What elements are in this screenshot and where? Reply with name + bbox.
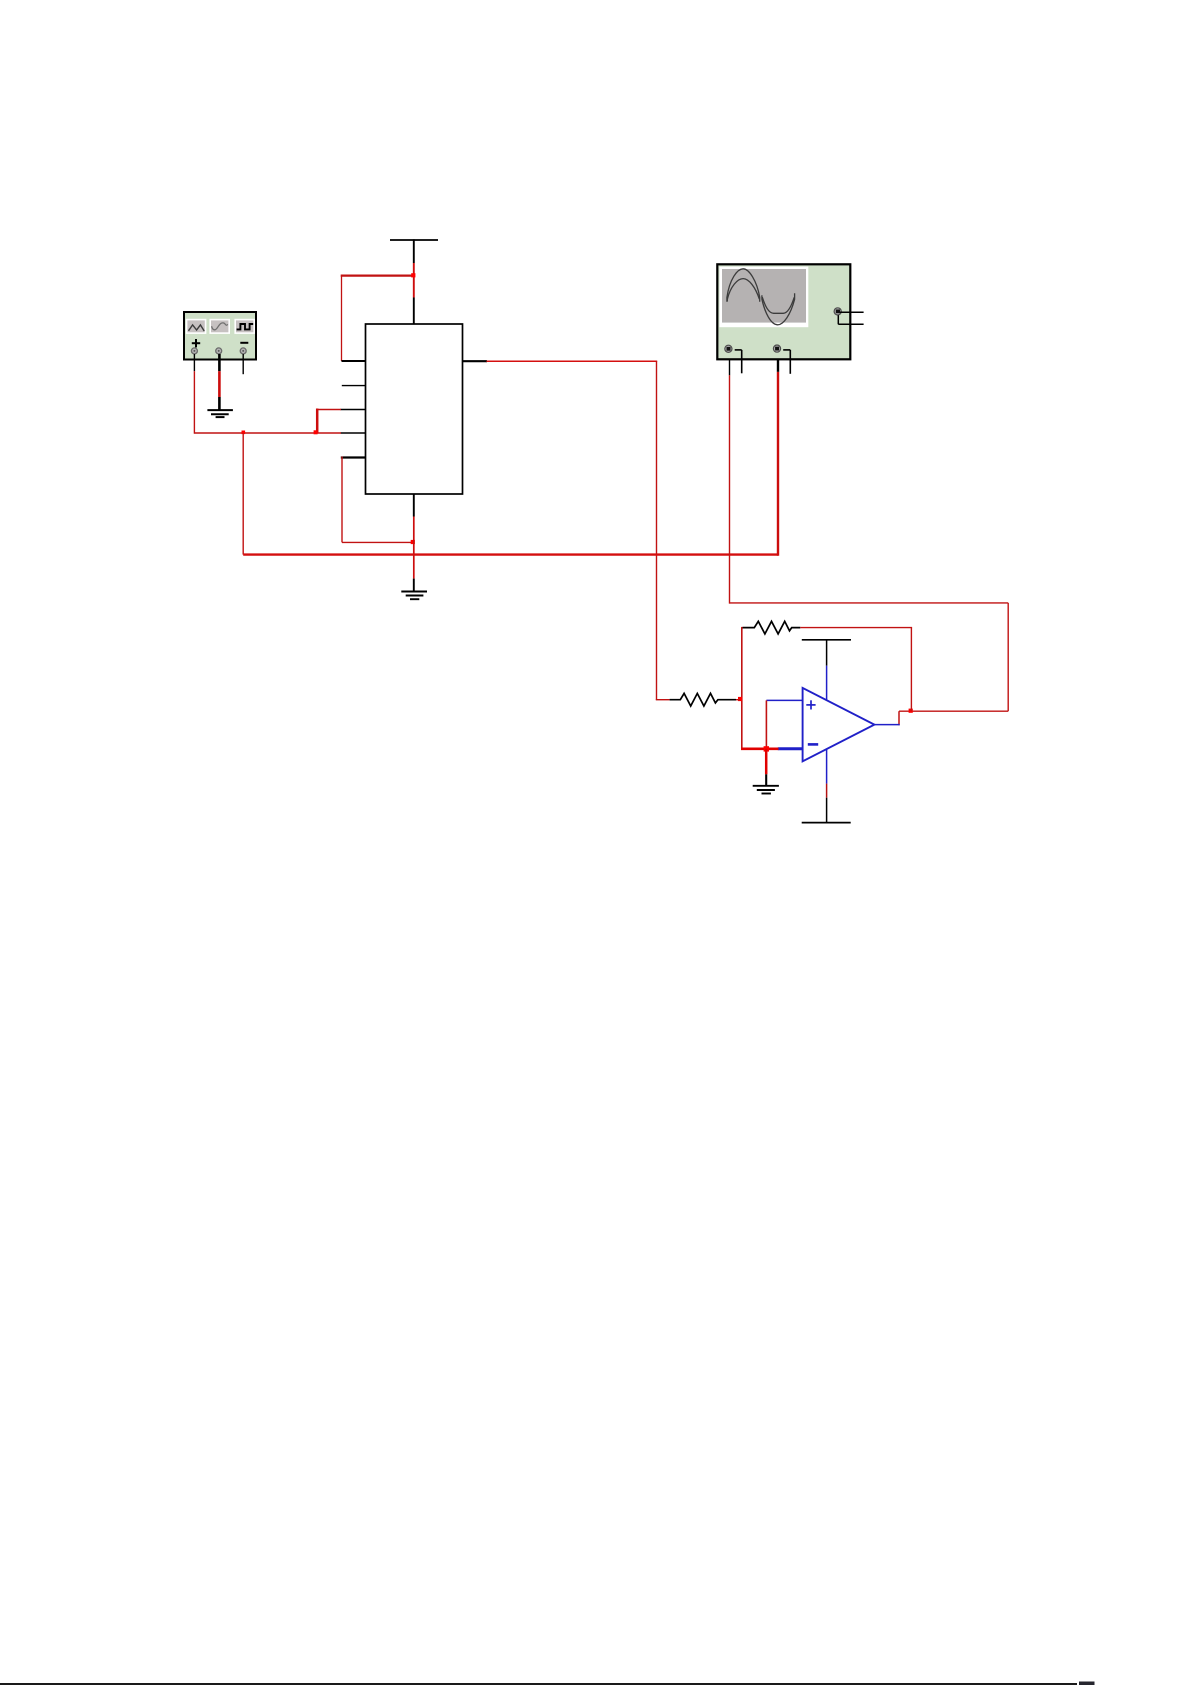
junction at VCC branch [411, 273, 415, 277]
terminal B of scope [773, 345, 780, 352]
wire R2 right lead red to feedback corner [800, 627, 912, 629]
waveform button sine [210, 320, 229, 334]
terminal - of generator [240, 348, 246, 354]
wire riser to scope channel B [777, 372, 779, 556]
IC pin 4 stub [341, 432, 366, 434]
trigger stub lines [838, 312, 863, 324]
label + on generator [192, 339, 200, 347]
wire red to pin 3 [316, 409, 341, 411]
op-amp U2 triangle [803, 688, 875, 761]
stub from - terminal (unconnected) [242, 354, 244, 374]
label - on generator [240, 342, 248, 344]
wire bottom pin to ground [413, 517, 415, 579]
op-amp output pin [874, 724, 899, 726]
junction at output node [909, 709, 913, 713]
ground symbol at op-amp [753, 786, 779, 794]
wire thick vertical riser to pin 3 [316, 409, 319, 434]
IC U1 body [366, 324, 463, 494]
terminal A stub [735, 350, 742, 373]
wire channel A across top of op-amp [730, 602, 1009, 604]
wire pin 5 down [341, 457, 343, 543]
wire to op-amp ground [765, 749, 768, 775]
IC pin 1 stub (top-left) [342, 360, 366, 362]
power VCC T-bar symbol [390, 239, 438, 263]
resistor R2 feedback zigzag [743, 621, 801, 634]
op-amp non-inverting input pin [766, 699, 802, 701]
wire VCC branch horizontal to pin 1 loop [341, 274, 415, 276]
terminal + of generator [191, 348, 197, 354]
IC pin 3 stub [341, 409, 366, 411]
wire feedback left vertical [741, 627, 743, 749]
ground symbol under IC [401, 592, 427, 600]
wire vertical down to IC pin 1 [341, 276, 343, 361]
oscilloscope XSC1 body [717, 264, 850, 359]
IC top pin stub [413, 298, 415, 325]
bottom page border line [0, 1683, 1077, 1685]
terminal B stub [783, 350, 790, 374]
waveform button square (selected) [235, 320, 254, 334]
wire from + terminal down [193, 354, 195, 371]
op-amp inverting input pin (thick) [778, 747, 803, 750]
resistor R1 input leads and zigzag [656, 699, 670, 701]
terminal T (trigger) of scope [834, 308, 841, 315]
wire scope channel A down [729, 353, 731, 376]
junction at riser to pin 3 [314, 430, 318, 434]
ground symbol under generator [207, 410, 233, 417]
op-amp V+ supply T-bar [802, 639, 851, 641]
op-amp + marking [806, 700, 815, 709]
terminal COM of generator [216, 348, 222, 354]
wire back to op-amp output node [899, 710, 1008, 712]
oscilloscope screen bezel [719, 267, 808, 328]
oscilloscope screen [722, 269, 806, 323]
junction at ground branch [242, 431, 246, 435]
waveform button triangle [187, 320, 206, 334]
IC pin 2 stub (unconnected) [342, 385, 366, 387]
op-amp V- supply T-bar [826, 749, 828, 784]
wire VCC vertical red segment [413, 263, 415, 298]
junction cross at inputs/ground [764, 746, 769, 751]
junction at bottom pin net [411, 540, 415, 544]
IC bottom pin stub [413, 494, 415, 517]
wire right loop vertical [1007, 603, 1009, 711]
terminal A of scope [725, 345, 732, 352]
wire from IC output to op-amp input resistor [487, 360, 658, 362]
wire feedback right vertical [910, 628, 912, 712]
ground pin stub under IC [413, 579, 415, 592]
scope trace channel A (outer sine) [727, 269, 795, 325]
op-amp - marking [808, 743, 818, 746]
wire pin 5 across to bottom pin [342, 541, 414, 543]
IC pin 5 stub (bottom-left, thick) [341, 456, 366, 458]
function generator XFG1 body [184, 312, 256, 360]
scope trace channel B (inner sine) [727, 279, 794, 314]
wire from COM terminal to ground (thick) [218, 354, 221, 371]
wire bottom ground rail (long horizontal) [243, 553, 778, 555]
bottom right artifact block [1079, 1682, 1095, 1685]
wire output riser [898, 711, 900, 725]
wire vertical from junction down to bottom rail [242, 433, 244, 555]
IC right output pin stub [463, 360, 488, 362]
wire from function generator + to pin 4 [194, 432, 341, 434]
junction at inverting input node [738, 697, 742, 701]
